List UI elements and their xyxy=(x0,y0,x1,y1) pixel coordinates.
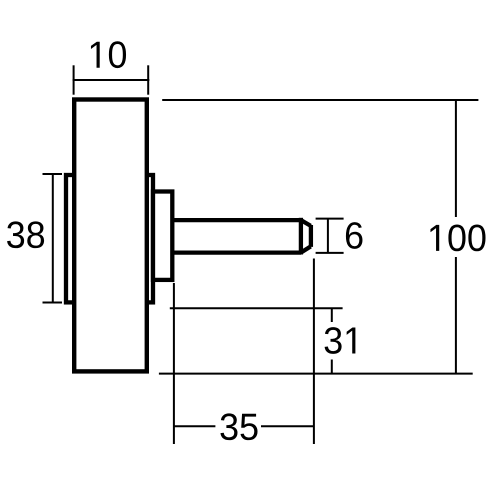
dim 10 right tick xyxy=(147,65,149,94)
wheel body xyxy=(74,100,147,372)
hub xyxy=(153,192,172,280)
dim 35 right extension line xyxy=(313,259,315,445)
label dim 10 text xyxy=(91,41,126,68)
label dim 35 text xyxy=(220,413,257,440)
shaft bottom edge xyxy=(172,250,301,254)
dim 38 line xyxy=(52,174,54,303)
shaft tip bottom chamfer xyxy=(301,246,311,252)
label dim 6 text xyxy=(346,222,363,249)
dim 35 left extension line xyxy=(173,283,175,444)
dim 6 bottom tick xyxy=(316,252,344,254)
left flange xyxy=(66,175,74,302)
dim 35 line right segment xyxy=(261,425,314,427)
dim 31 line upper xyxy=(331,308,333,322)
dim 31 top extension line xyxy=(170,307,343,309)
dim 35 line left segment xyxy=(174,425,216,427)
dim 6 top tick xyxy=(316,218,344,220)
label dim 38 text xyxy=(7,221,44,248)
dim 38 bottom tick xyxy=(43,302,63,304)
shaft top edge xyxy=(172,218,301,222)
dim 100 line lower xyxy=(455,257,457,374)
shaft tip top chamfer xyxy=(301,220,311,226)
label dim 31 text xyxy=(325,327,356,354)
label dim 100 text xyxy=(430,225,485,252)
dim 100 line upper xyxy=(455,100,457,217)
right flange xyxy=(147,175,153,302)
dim 31 line lower xyxy=(331,360,333,374)
top extension line xyxy=(162,99,478,101)
shaft chamfer line xyxy=(299,218,303,255)
dim 6 line xyxy=(327,219,329,253)
bottom extension line xyxy=(159,373,473,375)
dim 10 line xyxy=(73,79,150,81)
dim 38 top tick xyxy=(43,173,63,175)
dim 10 left tick xyxy=(73,65,75,94)
shaft tip face xyxy=(309,225,313,247)
